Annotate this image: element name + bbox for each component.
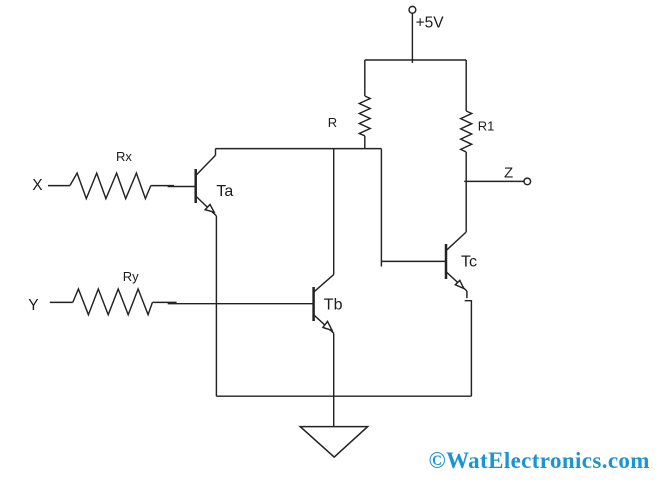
resistor Rx bbox=[70, 173, 151, 199]
top rail bbox=[365, 59, 466, 61]
resistor Ry bbox=[73, 289, 153, 315]
wire Rx right lead bbox=[151, 185, 174, 187]
svg-text:Rx: Rx bbox=[116, 149, 132, 164]
wire to Tc base bbox=[381, 260, 446, 262]
transistor Tb bbox=[314, 275, 334, 334]
svg-text:R1: R1 bbox=[478, 118, 495, 133]
wire X lead bbox=[48, 185, 70, 187]
wire Tb emitter to ground bbox=[333, 333, 335, 426]
svg-text:Tb: Tb bbox=[324, 296, 343, 313]
svg-text:Z: Z bbox=[504, 164, 513, 181]
transistor Tc bbox=[446, 232, 467, 298]
svg-text:Y: Y bbox=[28, 297, 38, 314]
wire output Z bbox=[464, 180, 524, 182]
ground bbox=[300, 427, 368, 458]
svg-text:X: X bbox=[32, 177, 43, 194]
wire R1 to Tc collector bbox=[465, 152, 467, 232]
collector rail (Ta/Tb) bbox=[216, 148, 382, 150]
resistor R1 bbox=[461, 60, 472, 152]
wire Tb collector up to rail bbox=[333, 149, 335, 275]
wire Ta emitter down bbox=[215, 216, 217, 396]
wire Y lead bbox=[50, 301, 73, 303]
wire Ry right lead bbox=[152, 301, 176, 303]
Z terminal bbox=[524, 178, 531, 185]
+5V terminal bbox=[409, 6, 416, 13]
bottom rail bbox=[216, 395, 471, 397]
svg-text:Ry: Ry bbox=[123, 269, 139, 284]
transistor Ta bbox=[196, 149, 217, 216]
wire to Tb base bbox=[168, 303, 314, 305]
svg-text:R: R bbox=[328, 115, 337, 130]
resistor R bbox=[359, 60, 370, 149]
svg-text:Tc: Tc bbox=[461, 254, 477, 271]
svg-text:+5V: +5V bbox=[416, 15, 445, 32]
wire Tc emitter to bottom rail bbox=[465, 301, 472, 397]
svg-text:Ta: Ta bbox=[216, 183, 233, 200]
wire +5V down to top rail bbox=[411, 13, 413, 63]
svg-text:©WatElectronics.com: ©WatElectronics.com bbox=[429, 448, 650, 473]
wire Tc base drop from rail bbox=[380, 149, 382, 267]
wire to Ta base bbox=[168, 186, 196, 188]
